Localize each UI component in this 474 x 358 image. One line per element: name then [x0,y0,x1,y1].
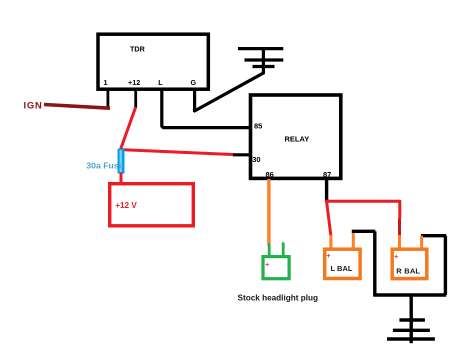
wire red down right side [398,200,401,219]
svg-text:30a Fuse: 30a Fuse [86,160,123,170]
svg-text:+: + [265,260,270,269]
wire red fuse to battery box [120,173,123,184]
wire black bottom bar [373,293,446,296]
wire TDR pin1 down [107,90,110,109]
svg-text:RELAY: RELAY [285,135,310,144]
svg-text:Stock headlight plug: Stock headlight plug [238,294,319,303]
plug prong right (green) [282,242,285,256]
svg-text:IGN: IGN [24,99,43,110]
TDR box U1 [98,34,208,89]
svg-text:R BAL: R BAL [396,266,420,275]
wire R BAL right pin orange [420,236,423,249]
wire orange into L BAL left pin [329,235,332,249]
fuse F1 30a [118,149,125,174]
svg-text:+: + [394,252,399,261]
battery box +12V [110,184,194,226]
ground GND1 (top) [238,48,283,75]
wire IGN (dark red) [44,105,110,109]
svg-text:87: 87 [323,170,331,179]
svg-text:L BAL: L BAL [331,264,353,273]
wire TDR pin L to relay 85 [162,90,250,128]
wire L BAL right pin orange [352,231,355,249]
wire diagonal G to ground [194,73,264,112]
svg-text:G: G [191,78,197,87]
svg-text:30: 30 [252,155,260,164]
wire black R BAL bar [421,234,446,237]
plug prong left (green) [268,244,271,257]
R BAL box [392,249,427,278]
svg-text:TDR: TDR [130,45,146,54]
wire orange into R BAL left pin [398,235,401,249]
wire black L BAL bar [352,230,376,233]
svg-text:86: 86 [266,170,274,179]
svg-text:+12: +12 [128,78,140,87]
wire red 87 horizontal [325,200,400,203]
L BAL box [325,249,360,278]
wire relay pin86 orange [267,179,270,246]
svg-text:+: + [326,251,331,260]
svg-text:85: 85 [254,122,262,131]
wire black up right side [444,236,447,295]
ground GND2 (bottom) [387,295,435,343]
headlight plug box (green) [263,257,289,279]
svg-text:1: 1 [104,78,108,87]
wire red +12 to fuse [121,107,136,150]
wire black down left of rectangle [373,231,376,295]
wire red fuse to relay pin30 [121,150,235,155]
svg-text:L: L [158,78,163,87]
wire TDR pin G down [193,90,196,113]
relay box K1 [251,95,341,178]
wire black stub to pin30 [233,153,250,156]
svg-text:+12 V: +12 V [115,201,137,210]
wire dark red segment [398,219,401,236]
wire relay pin87 black stub [325,179,328,202]
wire red 87 diagonal to L BAL [327,202,331,237]
wire TDR pin +12 down [134,90,137,108]
